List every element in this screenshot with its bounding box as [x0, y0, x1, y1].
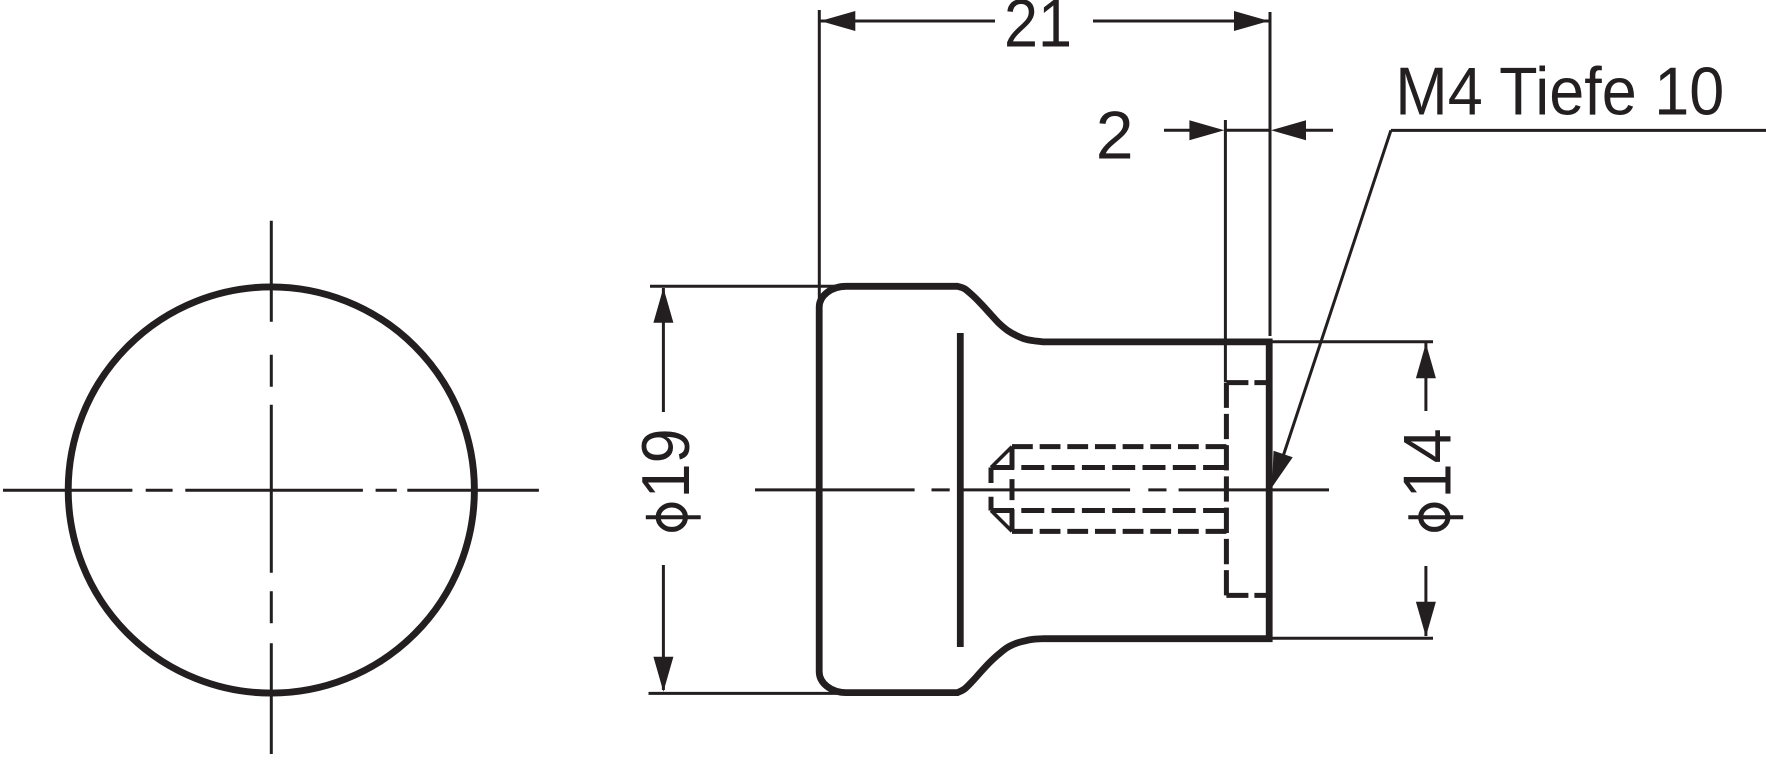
drill point chamfer top diagonal [991, 447, 1012, 468]
hidden line: counterbore bottom wall [1226, 593, 1268, 598]
horizontal center line of front view [3, 489, 539, 492]
leader text M4 Tiefe 10 [1395, 54, 1724, 130]
svg-text:2: 2 [1096, 98, 1134, 174]
dimension phi19: extension line bottom [649, 692, 847, 695]
hidden line: thread major diameter bottom [1012, 529, 1226, 534]
phi symbol of phi19: ellipse [658, 505, 685, 529]
drill point chamfer bottom diagonal [991, 511, 1012, 532]
dimension 2: right tail line [1305, 129, 1333, 132]
dimension 2: left tail line [1164, 129, 1190, 132]
dimension phi14: extension line top [1272, 340, 1433, 343]
dimension phi14: bottom arrowhead [1416, 602, 1436, 637]
leader arrowhead at thread [1272, 451, 1293, 487]
phi symbol of phi14: cross bar [1408, 515, 1463, 519]
dimension text 2 [1096, 98, 1134, 174]
svg-text:21: 21 [1004, 0, 1072, 62]
hidden line: drill end (vertical) [989, 468, 994, 511]
front face tangent line of knob [957, 333, 964, 647]
leader horizontal line [1391, 129, 1766, 132]
dimension 2: right arrowhead pointing left [1271, 120, 1306, 140]
leader diagonal line to thread [1284, 130, 1391, 455]
hidden line: counterbore top wall [1226, 380, 1268, 385]
dimension phi19: bottom arrowhead [653, 657, 673, 692]
vertical center line of front view [270, 221, 273, 754]
svg-text:14: 14 [1390, 428, 1466, 498]
dimension text 21 [1004, 0, 1072, 62]
dimension text phi19 (rotated digits 19) [628, 428, 704, 498]
dimension 2: dimension line between extensions [1225, 129, 1270, 132]
dimension 21: extension line right [1269, 12, 1272, 336]
dimension text phi14 (rotated digits 14) [1390, 428, 1466, 498]
front view circle (knob face, diameter 19) [68, 287, 474, 693]
dimension phi14: extension line bottom [1266, 637, 1433, 640]
phi symbol of phi19: cross bar [646, 515, 701, 519]
dimension 21: dimension line [819, 20, 1270, 23]
dimension 21: right arrowhead [1234, 11, 1269, 31]
dimension phi19: extension line top [650, 285, 849, 288]
dimension 2: left arrowhead pointing right [1189, 120, 1224, 140]
dimension phi19: dimension line [662, 288, 665, 690]
dimension 21: extension line left [818, 10, 821, 314]
svg-text:19: 19 [628, 428, 704, 498]
horizontal center line of side view [755, 488, 1329, 491]
dimension 2: extension line left [1224, 120, 1227, 382]
side view knob outline [819, 286, 1269, 692]
dimension phi14: dimension line [1424, 343, 1427, 636]
hidden line: thread major diameter top [1012, 444, 1226, 449]
dimension 21: left arrowhead [820, 11, 855, 31]
svg-text:M4 Tiefe 10: M4 Tiefe 10 [1395, 54, 1724, 130]
hidden line: counterbore bottom face (vertical dashed) [1224, 383, 1229, 596]
dimension phi19: top arrowhead [653, 288, 673, 323]
phi symbol of phi14: ellipse [1421, 505, 1448, 529]
hidden line: thread minor diameter top [991, 465, 1226, 470]
hidden line: thread minor diameter bottom [991, 508, 1226, 513]
dimension phi14: top arrowhead [1416, 343, 1436, 378]
hidden line: thread end (vertical) [1010, 447, 1015, 532]
